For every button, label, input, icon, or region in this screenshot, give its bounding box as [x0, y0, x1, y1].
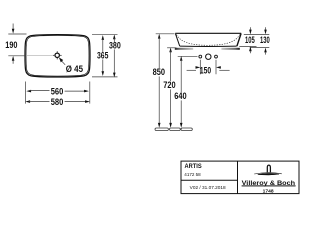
- svg-text:130: 130: [260, 35, 270, 45]
- svg-text:640: 640: [174, 91, 186, 101]
- svg-text:4172 58: 4172 58: [184, 172, 201, 177]
- svg-text:580: 580: [51, 97, 64, 107]
- svg-text:190: 190: [5, 40, 17, 50]
- svg-text:150: 150: [200, 66, 211, 76]
- svg-text:380: 380: [109, 40, 121, 50]
- svg-text:ARTIS: ARTIS: [185, 163, 202, 170]
- svg-text:V02 / 31.07.2018: V02 / 31.07.2018: [190, 185, 226, 190]
- svg-text:Ø 45: Ø 45: [66, 64, 83, 74]
- svg-text:105: 105: [245, 35, 255, 45]
- svg-text:720: 720: [163, 80, 175, 90]
- svg-text:365: 365: [97, 51, 108, 61]
- svg-text:850: 850: [153, 67, 165, 77]
- svg-text:560: 560: [51, 87, 64, 97]
- svg-text:1748: 1748: [263, 188, 275, 193]
